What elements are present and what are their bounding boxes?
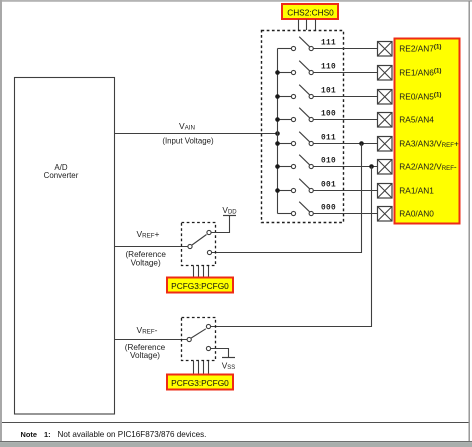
I/O pin pad RA3 (378, 137, 393, 152)
VREF- tap wire (211, 167, 372, 327)
CHS2:CHS0 control register box (282, 4, 338, 19)
bus junction dot row 100 (275, 117, 280, 122)
I/O pin pad RA0 (378, 207, 393, 222)
I/O pin pad RA5 (378, 113, 393, 128)
note text (21, 430, 207, 439)
svg-text:100: 100 (321, 111, 336, 119)
channel switch 111 (278, 37, 314, 51)
VREF- switch common contact (187, 337, 191, 341)
svg-text:110: 110 (321, 64, 336, 72)
VSS supply symbol (211, 349, 236, 371)
svg-text:111: 111 (321, 40, 336, 48)
bus junction dot row 001 (275, 188, 280, 193)
VAIN input wire (115, 121, 278, 146)
bus junction dot row 101 (275, 94, 280, 99)
svg-text:Converter: Converter (44, 171, 79, 180)
VREF+ switch blade (192, 235, 207, 246)
VREF- junction dot on RA2 wire (369, 164, 374, 169)
VREF+ switch pin contact (207, 250, 211, 254)
svg-text:Voltage): Voltage) (130, 351, 160, 360)
I/O pin pad RE1 (378, 66, 393, 81)
VREF- switch VSS contact (206, 346, 210, 350)
svg-text:PCFG3:PCFG0: PCFG3:PCFG0 (171, 378, 229, 388)
VREF- switch pin contact (206, 324, 210, 328)
I/O pin pad RA1 (378, 184, 393, 199)
VREF+ select switch SW1 dashed box (182, 223, 216, 266)
wire to pin RE1 (313, 72, 377, 74)
VREF+ junction dot on RA3 wire (359, 141, 364, 146)
A/D converter block U1 (15, 78, 115, 415)
VREF+ switch common contact (188, 244, 192, 248)
svg-text:101: 101 (321, 88, 336, 96)
wire to pin RA0 (313, 213, 377, 215)
wire to pin RA3 (313, 143, 377, 145)
svg-text:001: 001 (321, 182, 336, 190)
VDD supply symbol (211, 205, 237, 232)
wire to pin RA5 (313, 119, 377, 121)
svg-text:010: 010 (321, 158, 336, 166)
VREF- select switch SW2 dashed box (182, 318, 216, 361)
channel switch 010 (278, 155, 314, 169)
bus junction dot row 010 (275, 164, 280, 169)
input bus wire (277, 49, 279, 214)
pin name panel (395, 39, 460, 224)
VREF+ switch VDD contact (207, 230, 211, 234)
channel switch 000 (278, 202, 314, 216)
CHS control line 2 (306, 20, 308, 31)
svg-text:PCFG3:PCFG0: PCFG3:PCFG0 (171, 281, 229, 291)
channel switch 001 (278, 179, 314, 193)
VREF+ PCFG control lines (194, 266, 209, 277)
channel switch 101 (278, 85, 314, 99)
channel switch 110 (278, 61, 314, 75)
bus junction dot row 110 (275, 70, 280, 75)
CHS control line 3 (315, 20, 317, 31)
svg-text:RA1/AN1: RA1/AN1 (399, 186, 434, 196)
bus junction dot row 011 (275, 141, 280, 146)
channel switch 011 (278, 132, 314, 146)
PCFG3:PCFG0 register box (VREF-) (167, 375, 233, 390)
PCFG3:PCFG0 register box (VREF+) (167, 278, 233, 293)
channel switch 100 (278, 108, 314, 122)
svg-text:000: 000 (321, 205, 336, 213)
svg-text:RA0/AN0: RA0/AN0 (399, 209, 434, 219)
CHS control line 1 (298, 20, 300, 31)
VREF- switch blade (191, 329, 206, 338)
svg-text:CHS2:CHS0: CHS2:CHS0 (287, 7, 334, 17)
VAIN junction dot (275, 131, 280, 136)
wire to pin RA2 (313, 166, 377, 168)
svg-text:011: 011 (321, 135, 336, 143)
I/O pin pad RE0 (378, 90, 393, 105)
wire to pin RE2 (313, 48, 377, 50)
I/O pin pad RE2 (378, 42, 393, 57)
I/O pin pad RA2 (378, 160, 393, 175)
analog multiplexer dashed box (262, 31, 344, 223)
svg-text:Note1:Not available on PIC16F8: Note1:Not available on PIC16F873/876 dev… (21, 430, 207, 439)
VREF- input wire (115, 325, 187, 360)
wire to pin RE0 (313, 96, 377, 98)
VREF- PCFG control lines (194, 361, 209, 374)
wire to pin RA1 (313, 190, 377, 192)
VREF+ input wire (115, 229, 188, 267)
VREF+ tap wire (212, 144, 362, 253)
svg-text:(Input Voltage): (Input Voltage) (162, 137, 214, 146)
svg-text:Voltage): Voltage) (131, 258, 161, 267)
svg-text:RA5/AN4: RA5/AN4 (399, 115, 434, 125)
